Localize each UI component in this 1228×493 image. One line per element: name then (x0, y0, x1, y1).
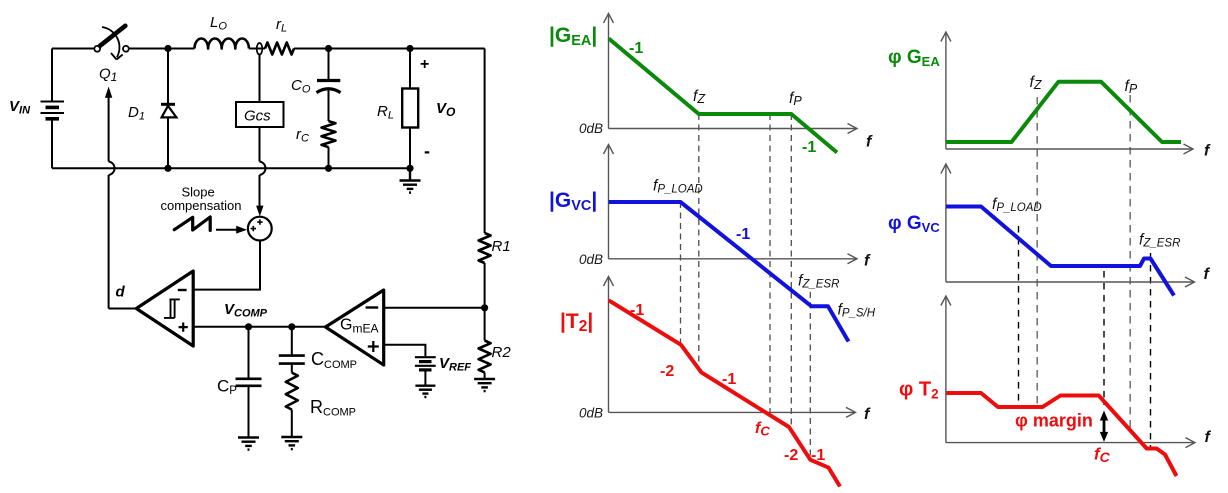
wire GmEA plus input to VREF (384, 345, 426, 356)
svg-text:d: d (116, 283, 126, 300)
dashed line fP_LOAD phase (1018, 226, 1020, 407)
dashed line fC phase (1103, 271, 1105, 405)
plot |GVC| x-axis (609, 254, 858, 264)
node dot RL branch (406, 45, 413, 52)
svg-text:0dB: 0dB (579, 252, 603, 267)
wire R2 to ground (484, 373, 486, 379)
resistor R1 (479, 233, 491, 263)
svg-text:R2: R2 (492, 344, 512, 361)
node A dot (switch/D1/L junction) (164, 45, 171, 52)
node VCOMP dot CP (245, 323, 252, 330)
capacitor CCOMP (279, 327, 305, 373)
ground at RCOMP (281, 437, 302, 449)
svg-text:-2: -2 (660, 363, 674, 380)
svg-text:φ margin: φ margin (1015, 411, 1093, 431)
node dot rC bottom (325, 165, 332, 172)
wire rC to rail (328, 147, 330, 168)
wire rL to output node (294, 48, 485, 50)
node dot CO branch (325, 45, 332, 52)
svg-text:-1: -1 (736, 226, 750, 243)
dashed line fZ_ESR phase (1150, 253, 1152, 448)
battery VREF (415, 357, 436, 385)
node dot D1 bottom (164, 165, 171, 172)
dashed line f_C (769, 114, 771, 414)
wire inductor to rL (249, 48, 265, 50)
svg-text:-1: -1 (811, 447, 825, 464)
comparator U1 (PWM) (136, 271, 193, 346)
node dot feedback divider (481, 304, 488, 311)
plot phase GVC y-axis (941, 164, 951, 282)
curve T2 phase (red) (946, 393, 1177, 476)
wire RCOMP to ground (291, 410, 293, 437)
capacitor CO (317, 49, 341, 122)
arrow sawtooth to summer (216, 226, 247, 234)
svg-text:0dB: 0dB (579, 121, 603, 136)
svg-text:-2: -2 (784, 447, 798, 464)
plot |T2| y-axis (604, 277, 614, 413)
plot |GEA| y-axis (604, 14, 614, 129)
ground at CP (238, 438, 259, 450)
switch Q1 (94, 26, 129, 60)
wire top-left from VIN to switch (52, 48, 94, 50)
curve GEA gain (green) (609, 39, 837, 153)
svg-text:R1: R1 (492, 238, 511, 255)
curve GEA phase (green) (946, 82, 1181, 142)
battery VIN (41, 49, 65, 169)
svg-text:+: + (420, 56, 429, 73)
svg-text:-1: -1 (629, 40, 643, 57)
ground at R2 (474, 379, 495, 391)
curve GVC phase (blue) (946, 207, 1174, 296)
svg-text:-: - (424, 141, 430, 161)
node dot RL bottom (406, 165, 413, 172)
wire comparator plus input to VCOMP rail (193, 326, 325, 328)
resistor rL (265, 43, 294, 55)
summing junction (248, 217, 272, 241)
sawtooth symbol (174, 217, 210, 230)
svg-text:0dB: 0dB (579, 406, 603, 421)
wire R1 to R2 (484, 263, 486, 341)
dashed line f_P (790, 114, 792, 428)
op-amp GmEA (error amplifier) (326, 290, 384, 365)
plot |GVC| y-axis (604, 145, 614, 259)
svg-text:-1: -1 (630, 302, 644, 319)
wire d up to Q1 with hop over rail (105, 87, 115, 309)
resistor RCOMP (286, 373, 298, 410)
right rail VO to R1 (484, 49, 486, 234)
inductor LO (195, 39, 249, 49)
dashed line fZ phase (1036, 97, 1038, 406)
diode D1 (161, 49, 176, 169)
wire comparator output d (109, 308, 137, 310)
wire summer to comparator minus input (193, 241, 260, 290)
current-sense loop on wire (257, 43, 263, 55)
svg-text:Gcs: Gcs (244, 107, 271, 124)
svg-text:fC: fC (755, 420, 770, 439)
svg-text:-1: -1 (802, 139, 816, 156)
curve T2 gain (red) (609, 300, 840, 486)
plot |T2| x-axis (609, 407, 856, 417)
node VCOMP dot CCOMP (288, 323, 295, 330)
dashed line fP phase (1129, 95, 1131, 429)
curve GVC gain (blue) (609, 202, 849, 342)
wire Gcs to summer with hop over rail (256, 127, 265, 216)
svg-text:compensation: compensation (161, 198, 242, 213)
plot phase GVC x-axis (946, 277, 1195, 287)
dashed line f_Z (698, 114, 700, 372)
plot phase GEA x-axis (946, 144, 1193, 154)
ground at RL (400, 168, 421, 192)
Gcs current-sense gain block (236, 55, 284, 127)
svg-text:|T2|: |T2| (560, 310, 593, 335)
ground at VREF (415, 386, 435, 397)
wire switch to node A (129, 48, 195, 50)
svg-text:-1: -1 (722, 371, 736, 388)
plot phase T2 x-axis (946, 438, 1195, 448)
wire GmEA minus input to divider node (384, 307, 485, 309)
bottom rail (52, 167, 410, 169)
dashed line f_P_LOAD (680, 202, 682, 345)
dashed line f_Z_ESR (809, 292, 811, 460)
plot phase T2 y-axis (941, 296, 951, 443)
plot phase GEA y-axis (941, 32, 951, 149)
capacitor CP (236, 327, 262, 437)
plot |GEA| x-axis (609, 124, 858, 134)
resistor R2 (479, 341, 491, 373)
resistor rC (322, 121, 336, 147)
phase margin arrow (1100, 411, 1108, 442)
resistor RL (rectangle) (402, 49, 418, 169)
